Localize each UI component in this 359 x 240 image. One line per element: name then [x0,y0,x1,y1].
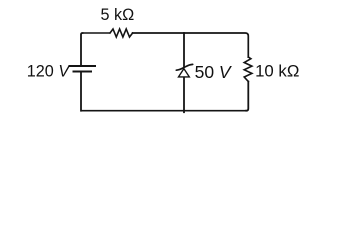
wire: top rail right segment [133,33,249,57]
svg-text:5 kΩ: 5 kΩ [101,6,135,24]
svg-text:50 V: 50 V [195,62,233,82]
zener diode D1 triangle (anode, pointing up) [179,69,190,77]
svg-text:120 V: 120 V [27,62,72,80]
battery V1 plate short (bottom, -) [73,71,93,73]
wire: middle branch bottom (zener anode to bottom rail) [183,77,185,112]
wire: top rail left segment [83,32,111,34]
resistor R2 10 kOhm (vertical zigzag) [244,57,252,82]
zener diode D1 cathode bar (bent) [176,64,192,70]
wire: right vertical bottom segment [246,82,248,111]
wire: bottom rail [81,110,246,112]
wire: left vertical top segment (battery + to top-left corner) [81,33,83,66]
wire: middle branch top (top rail to zener cathode) [183,33,185,67]
battery V1 plate long (top, +) [69,65,97,67]
wire: left vertical bottom segment (battery - to bottom rail) [80,72,82,111]
svg-text:10 kΩ: 10 kΩ [255,61,299,80]
resistor R1 5 kOhm (horizontal zigzag) [110,29,133,37]
